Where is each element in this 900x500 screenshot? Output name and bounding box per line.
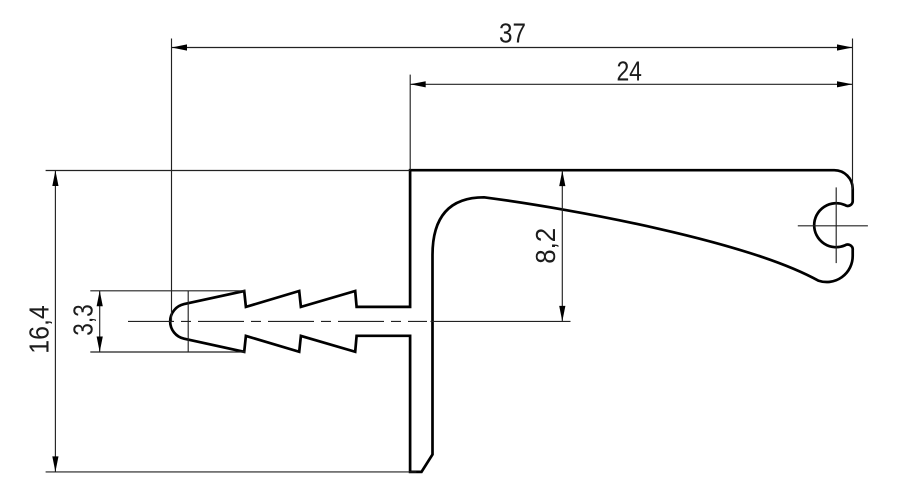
arrow 8,2 top	[559, 171, 565, 187]
extension line 8,2 bottom (centerline continuation)	[431, 320, 571, 322]
svg-text:8,2: 8,2	[530, 228, 561, 264]
crosshair vertical at screw pocket	[835, 187, 837, 263]
extension line 16,4 bottom	[46, 471, 417, 473]
extension line 3,3 bottom	[90, 351, 245, 353]
tangent edge line at spline tip	[187, 291, 189, 352]
extension line 37 left	[171, 39, 173, 322]
dimension line 37	[172, 47, 854, 49]
arrow 3,3 top	[97, 291, 103, 307]
arrow 3,3 bottom	[97, 337, 103, 353]
arrow 24 left	[410, 81, 426, 87]
extension line 37/24 right	[852, 39, 854, 190]
arrow 8,2 bottom	[559, 306, 565, 322]
arrow 16,4 bottom	[52, 456, 58, 472]
arrow 16,4 top	[52, 171, 58, 187]
arrow 37 left	[172, 44, 188, 50]
svg-text:37: 37	[499, 18, 526, 49]
dimension line 3,3	[99, 291, 101, 352]
svg-text:16,4: 16,4	[23, 305, 54, 354]
svg-text:3,3: 3,3	[68, 304, 99, 336]
extension line 3,3 top	[90, 290, 245, 292]
centerline of spline (dash-dot)	[128, 320, 427, 322]
arrow 37 right	[837, 44, 853, 50]
dimension line 24	[410, 83, 853, 85]
arrow 24 right	[837, 81, 853, 87]
svg-text:24: 24	[616, 56, 642, 87]
crosshair horizontal at screw pocket	[798, 225, 868, 227]
dimension line 16,4	[54, 171, 56, 472]
extension line 16,4 top	[46, 170, 410, 172]
dimension line 8,2	[561, 171, 563, 322]
profile outline	[170, 170, 853, 472]
extension line 24 left	[409, 75, 411, 170]
